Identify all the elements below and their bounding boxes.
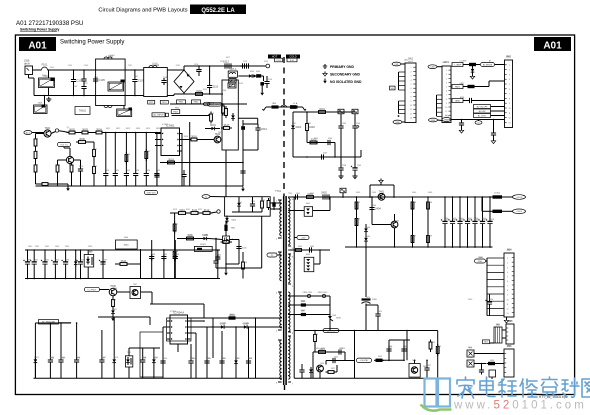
bottom bus secondary [294, 377, 438, 379]
svg-text:J803: J803 [506, 56, 510, 58]
svg-text:3420: 3420 [314, 334, 318, 336]
capacitor C7421 [375, 313, 380, 315]
svg-text:7603: 7603 [218, 132, 222, 134]
svg-text:3408: 3408 [428, 202, 432, 204]
inrush control block box [222, 80, 238, 150]
wire base row [64, 132, 69, 133]
svg-text:2207: 2207 [323, 153, 327, 155]
svg-text:3640: 3640 [124, 245, 130, 247]
wire label to IC [59, 322, 72, 324]
svg-text:T701: T701 [288, 193, 292, 195]
bus across isolation choke [266, 106, 303, 108]
svg-text:3: 3 [507, 267, 508, 269]
resistor R7641 inline [120, 263, 127, 266]
jumper contact box 2 [352, 109, 358, 114]
IC7604 left wire drop [163, 326, 167, 328]
svg-text:6402: 6402 [306, 203, 310, 205]
svg-text:1: 1 [411, 67, 412, 69]
wire LF102 to bridge bottom [167, 95, 174, 97]
svg-text:3112: 3112 [204, 208, 210, 212]
ecap C7632 bank [42, 261, 47, 263]
svg-text:7410: 7410 [412, 360, 416, 362]
opto IC7602 box [84, 255, 94, 268]
svg-text:2427: 2427 [427, 365, 431, 367]
svg-text:11: 11 [292, 257, 294, 259]
svg-text:2404: 2404 [372, 205, 376, 207]
watermark char 1 [457, 377, 474, 398]
svg-text:3641: 3641 [121, 259, 127, 263]
svg-text:2652: 2652 [221, 358, 225, 360]
isolation barrier dashed line lower [284, 385, 286, 393]
wire right standby drop [360, 150, 362, 157]
capacitor C7401 inline [295, 194, 297, 199]
svg-text:NO ISOLATED GND: NO ISOLATED GND [330, 80, 362, 84]
choke wire hook left [264, 107, 267, 111]
vertical col 236 [235, 327, 237, 378]
svg-text:10: 10 [509, 108, 511, 110]
wire cap bank column 2 [452, 197, 454, 219]
svg-text:2101: 2101 [251, 201, 255, 203]
resistor R7112 row [203, 212, 210, 215]
svg-text:Z801: Z801 [496, 324, 500, 326]
svg-text:C-LAMP: C-LAMP [454, 63, 462, 66]
svg-text:9: 9 [507, 295, 508, 297]
bus secondary mid [160, 162, 243, 164]
svg-text:2645: 2645 [61, 358, 65, 360]
svg-text:10: 10 [445, 107, 447, 109]
test contact box [340, 188, 346, 193]
svg-text:2625: 2625 [156, 170, 160, 172]
resistor R7620 sense [242, 262, 245, 269]
svg-text:3607: 3607 [34, 165, 38, 167]
svg-text:3644: 3644 [230, 314, 234, 316]
mosfet Q7605 box [223, 236, 230, 243]
wire feedback row 1 [191, 320, 205, 322]
svg-text:2644: 2644 [50, 358, 54, 360]
label box AMB [452, 99, 463, 103]
svg-text:2204: 2204 [356, 123, 360, 125]
label box C-LAMP [452, 63, 463, 67]
capacitor C108 inner [161, 80, 166, 82]
svg-text:3613: 3613 [93, 166, 97, 168]
T701 primary winding lower [280, 292, 282, 296]
svg-text:6104: 6104 [256, 71, 260, 73]
svg-text:J801: J801 [404, 60, 408, 62]
watermark char 7 [582, 379, 590, 397]
transistor Q7606 [109, 288, 117, 296]
wire column 4 to bus [135, 178, 137, 186]
wire mid standby [307, 142, 335, 144]
resistor R7108 left col [173, 252, 176, 259]
capacitor C7425 [386, 348, 391, 350]
diode D7406 black [301, 303, 306, 306]
diode D7610 in bank [74, 261, 78, 264]
svg-text:A01: A01 [543, 41, 562, 52]
svg-text:2105: 2105 [94, 77, 98, 79]
ecap C7410 output bank [442, 220, 447, 222]
svg-text:2650: 2650 [190, 358, 194, 360]
svg-text:POL: POL [445, 116, 449, 118]
svg-text:IC7604: IC7604 [170, 311, 176, 313]
wire conn bottom drop [493, 120, 495, 132]
svg-text:BL ON-OFF: BL ON-OFF [477, 106, 488, 108]
svg-text:2638: 2638 [151, 254, 155, 256]
svg-text:3425: 3425 [437, 346, 441, 348]
resistor R804 black [468, 85, 474, 87]
mosfet mark Q7408 [328, 316, 332, 319]
svg-text:F101: F101 [42, 75, 46, 77]
ground sym bus end [242, 187, 244, 189]
zener D7201 [291, 125, 295, 128]
wire column 3 to bus [125, 178, 127, 186]
svg-text:2113: 2113 [264, 61, 268, 63]
capacitor C7650 [188, 360, 193, 362]
wire lower standby [293, 156, 361, 158]
T701 secondary winding lower [288, 292, 290, 296]
watermark char 4 [520, 379, 537, 397]
wire reg row 352 [313, 351, 345, 353]
capacitor pair C7402 [322, 194, 324, 199]
IC7604 opto bracket [167, 318, 192, 341]
svg-text:J806: J806 [507, 346, 511, 348]
wire aux winding row [288, 249, 330, 251]
svg-text:6614: 6614 [153, 358, 157, 360]
resistor R7617 [224, 127, 230, 130]
ground sym loop [380, 179, 382, 181]
svg-text:J802: J802 [442, 62, 446, 64]
svg-text:3422: 3422 [331, 368, 335, 370]
capacitor C7647 [99, 359, 104, 361]
transistor Q7603 [214, 136, 221, 143]
connector J106 mains input [25, 66, 33, 75]
pill AT-SENSE [481, 63, 495, 67]
inductor L7402 black [493, 210, 503, 213]
wire IC pins drop 2 [189, 122, 191, 186]
capacitor C7431 [479, 369, 484, 371]
wire LF101 to C107 [125, 69, 144, 71]
svg-text:S01: S01 [391, 88, 394, 90]
svg-text:8: 8 [507, 290, 508, 292]
net rect BL DIM [474, 109, 491, 113]
transistor Q7602 [66, 156, 73, 163]
ecap C7430 conn [487, 301, 492, 303]
svg-text:2422: 2422 [339, 348, 343, 350]
svg-text:3618: 3618 [168, 157, 174, 161]
svg-text:6: 6 [446, 91, 447, 93]
sheet badge A01 right [534, 37, 571, 51]
wire bus y318 [188, 317, 283, 319]
svg-text:J804: J804 [507, 250, 511, 252]
svg-text:Switching Power Supply: Switching Power Supply [60, 40, 124, 46]
ladder rail J802 [436, 95, 438, 116]
pill VOLUME [58, 142, 71, 146]
label box SY-PROT [39, 320, 59, 324]
wire bus horizontal mid [129, 347, 160, 349]
resistor R7404 [355, 219, 358, 226]
dual diode D7402 box [304, 207, 312, 217]
testpoint circle small [55, 129, 58, 132]
svg-text:6403: 6403 [306, 254, 310, 256]
svg-text:+5V-S: +5V-S [516, 211, 522, 213]
junction dots rail [293, 196, 295, 198]
wire column 2 to bus [114, 178, 116, 186]
svg-text:2208: 2208 [342, 165, 346, 167]
svg-text:GND: GND [478, 261, 483, 263]
ecap C7209 to gnd [352, 167, 357, 169]
bottom long bus primary [34, 377, 283, 379]
resistor R7425 [436, 347, 439, 354]
svg-text:10: 10 [410, 105, 412, 107]
svg-text:J805: J805 [508, 321, 512, 323]
svg-text:2632: 2632 [45, 260, 49, 262]
watermark char 5 [542, 377, 558, 396]
svg-text:3202: 3202 [309, 125, 315, 129]
svg-text:5: 5 [507, 276, 508, 278]
oval input left [24, 131, 32, 135]
wire column 1 to bus [105, 178, 107, 186]
snubber loop box above rail [369, 185, 371, 197]
T701 primary winding aux [280, 252, 282, 256]
wire R to Q7603 [200, 139, 215, 141]
testpoint circle gate row [217, 210, 220, 213]
diode D7601 [211, 127, 214, 131]
svg-text:13: 13 [509, 122, 511, 124]
svg-text:3643: 3643 [112, 300, 116, 302]
big ecap C7420 [365, 285, 367, 297]
resistor R7424 [429, 342, 432, 349]
resistor R7407 [411, 236, 414, 243]
T701 pin stubs right [288, 196, 291, 198]
oval label trafo pin 2 [267, 253, 277, 257]
jumper circle 1 [307, 294, 310, 297]
svg-text:3424: 3424 [431, 342, 435, 344]
inrush inner hatch [228, 83, 236, 88]
svg-text:3606: 3606 [34, 151, 38, 153]
svg-text:2426: 2426 [403, 347, 407, 349]
svg-text:1: 1 [509, 65, 510, 67]
capacitor C7204 [352, 125, 357, 127]
resistor R7607 [34, 165, 37, 172]
wire bank column 6 [75, 250, 77, 260]
svg-text:7607: 7607 [133, 284, 137, 286]
transistor Q7409 [317, 365, 324, 372]
svg-text:3605: 3605 [34, 139, 38, 141]
svg-text:472: 472 [84, 83, 87, 85]
svg-text:7: 7 [509, 94, 510, 96]
ecap C7637 [100, 261, 105, 263]
svg-text:3113: 3113 [210, 113, 214, 115]
ecap C7411 output bank [450, 220, 455, 222]
wire drop 407 from bus [406, 331, 408, 361]
wire 345 drop [344, 352, 346, 361]
primary gnd bus [36, 185, 244, 187]
vertical drop C7404 [371, 197, 373, 214]
svg-text:6407: 6407 [301, 311, 305, 313]
ladder rail upper [398, 72, 400, 90]
resistor R7420 below bus [314, 335, 317, 342]
header model badge Q552.2E LA [190, 5, 246, 15]
watermark char 6 [562, 378, 579, 397]
wire Q2 connections [58, 159, 67, 161]
wire LF101 to C107 bottom [125, 95, 144, 97]
svg-text:3603: 3603 [82, 127, 88, 131]
svg-text:3: 3 [411, 76, 412, 78]
svg-text:7602: 7602 [88, 251, 92, 253]
ecap C7414 output bank [472, 220, 477, 222]
vertical col 213 [212, 318, 214, 358]
connector J802 ladder [442, 66, 451, 123]
svg-text:3201: 3201 [319, 107, 325, 111]
svg-text:8: 8 [292, 333, 293, 335]
svg-text:3616: 3616 [184, 136, 188, 138]
svg-text:10: 10 [507, 299, 509, 301]
diode D103 black body [257, 74, 261, 77]
svg-text:2421: 2421 [378, 311, 382, 313]
vertical col 222 [221, 331, 223, 378]
ecap C7633 bank [53, 261, 58, 263]
svg-text:2425: 2425 [388, 347, 392, 349]
svg-text:12: 12 [509, 118, 511, 120]
svg-text:C105: C105 [99, 78, 106, 82]
svg-text:2624: 2624 [146, 170, 150, 172]
wire bank column 1 [27, 250, 29, 260]
svg-text:9: 9 [446, 103, 447, 105]
svg-text:8: 8 [509, 98, 510, 100]
gate divider row y213 [170, 212, 178, 214]
transistor Q7405 [391, 221, 398, 228]
svg-text:6610: 6610 [80, 260, 84, 262]
common mode choke LF101 box [96, 59, 126, 106]
svg-text:L1 A: L1 A [293, 102, 298, 105]
wire bank column 3 [44, 250, 46, 260]
label box small AC [483, 340, 490, 344]
svg-text:3401: 3401 [310, 193, 314, 195]
capacitor C7105 in loop [236, 246, 241, 248]
svg-text:AC_COM: AC_COM [327, 329, 336, 332]
svg-text:L7401: L7401 [494, 193, 501, 195]
wire drop to C101 [48, 70, 50, 78]
connector J801 ladder [405, 63, 416, 123]
svg-text:7: 7 [292, 384, 293, 386]
svg-text:7605: 7605 [127, 352, 131, 354]
wire rail to dual diode [288, 210, 304, 212]
net label box small left [275, 58, 283, 62]
svg-text:2: 2 [509, 70, 510, 72]
capacitor C7611 [154, 174, 159, 176]
transistor Q7601 [44, 130, 51, 137]
svg-text:2415: 2415 [483, 219, 487, 221]
svg-text:3108: 3108 [174, 251, 178, 253]
capacitor C7624 [144, 173, 149, 175]
svg-text:7: 7 [411, 92, 412, 94]
choke wire hook right [303, 107, 306, 111]
wire IC7604 top feed [150, 303, 204, 305]
oval label 12V out [513, 195, 526, 200]
svg-text:5: 5 [509, 84, 510, 86]
vertical line bank 8 [102, 250, 104, 279]
wire mosfet source down [225, 243, 227, 271]
resistor R7110 row [179, 212, 186, 215]
T701 primary winding upper [280, 200, 282, 204]
capacitor C7625 [154, 173, 159, 175]
diode D7404 [364, 228, 368, 231]
pill PROT label [85, 287, 100, 291]
wire D7612 to bus [34, 365, 36, 378]
wire bank column 8 [87, 250, 89, 255]
junction dot HV rail [244, 65, 246, 67]
op-amp IC7604 secondary controller [170, 315, 188, 344]
connector J803 main signal [505, 60, 513, 128]
wire left bus top [35, 322, 71, 324]
ground sym C7208 [340, 174, 342, 176]
wire LF102 to bridge top [167, 69, 184, 71]
IC7601 pin stubs left wires [155, 133, 158, 135]
feedback loop rect right of mosfet [230, 239, 240, 241]
svg-text:www.520101.com: www.520101.com [453, 400, 587, 412]
wire C101 down [48, 88, 50, 96]
svg-text:det A: det A [24, 62, 30, 65]
ecap C7412 output bank [457, 220, 462, 222]
svg-text:5: 5 [446, 87, 447, 89]
svg-text:2637: 2637 [103, 260, 107, 262]
wire cap drop 404 [403, 340, 405, 360]
wire bank top rail [25, 249, 220, 251]
wire to Q2 [51, 183, 69, 185]
wire cap bank column 1 [444, 197, 446, 219]
resistor R7111 row [191, 212, 198, 215]
net badge HOT-GND black left [268, 55, 281, 59]
wire dual diode out [313, 210, 330, 212]
mosfet box Q7410 [409, 364, 420, 378]
wire cap bank column 5 [474, 197, 476, 219]
sheet badge A01 left [19, 37, 56, 51]
resistor R803 black [470, 63, 476, 65]
vertical col 207 [206, 327, 208, 378]
wire secondary lower rail [345, 246, 493, 248]
svg-text:2103: 2103 [73, 86, 77, 88]
resistor R7202 [306, 124, 309, 131]
capacitor C7640 [173, 256, 178, 258]
label box under LF102 right [160, 100, 168, 104]
svg-text:3103: 3103 [221, 105, 225, 107]
svg-text:3: 3 [446, 78, 447, 80]
svg-text:2411: 2411 [453, 219, 457, 221]
resistor R7403 [355, 202, 358, 209]
box above bank [116, 240, 138, 249]
svg-text:7601: 7601 [45, 126, 51, 130]
svg-text:3616: 3616 [191, 134, 197, 138]
svg-text:2620: 2620 [105, 170, 109, 172]
opto IC7605 box [125, 356, 132, 367]
svg-text:3423: 3423 [378, 356, 382, 358]
oval label 5V out [513, 209, 526, 214]
capacitor C7622 [124, 173, 129, 175]
vertical col 248 [248, 327, 250, 378]
diode D7613 [112, 359, 116, 362]
svg-text:2209: 2209 [357, 165, 361, 167]
capacitor C114 [264, 81, 269, 83]
diode D7612 left bank [34, 359, 38, 362]
svg-text:13: 13 [507, 313, 509, 315]
svg-text:6601: 6601 [210, 123, 216, 127]
wire cap bank column 3 [459, 197, 461, 219]
oval small on POL [475, 121, 482, 125]
capacitor C7612 [181, 174, 186, 176]
capacitor C105 on LF101 left [93, 78, 98, 80]
capacitor C103 [81, 78, 86, 80]
ground sym Q7602 row [67, 186, 69, 188]
svg-text:3112: 3112 [198, 209, 202, 211]
